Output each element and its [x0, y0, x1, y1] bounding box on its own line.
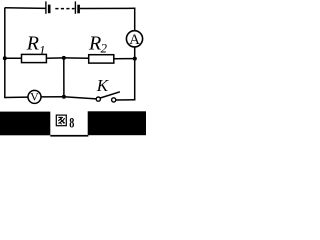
caption character 图: [56, 115, 66, 126]
wire: right vertical lower (node to bottom corner): [134, 59, 136, 101]
switch K lever blade: [100, 92, 120, 98]
wire: bottom right (corner to switch): [116, 99, 135, 101]
ammeter U:A circle: [126, 31, 142, 47]
svg-text:R: R: [88, 32, 101, 54]
node: bottom middle junction dot: [62, 95, 66, 99]
wire: bottom middle (node to switch): [64, 97, 96, 99]
wire: left vertical: [4, 8, 6, 99]
battery cell 1 short thick plate (-): [48, 5, 51, 14]
wire: voltmeter to bottom node: [41, 96, 64, 98]
switch K left terminal circle: [96, 97, 100, 101]
wire: bottom left (corner to voltmeter): [5, 96, 28, 98]
wire: middle left (node to R1): [5, 57, 22, 59]
svg-text:2: 2: [101, 41, 108, 56]
wire: top right from battery to corner: [80, 7, 135, 9]
voltmeter U:V circle: [28, 90, 41, 103]
caption black bar left: [0, 112, 50, 136]
wire: R1 to middle node: [46, 57, 63, 59]
node: middle junction dot between R1 and R2: [62, 56, 66, 60]
svg-text:K: K: [96, 76, 110, 95]
resistor R1 box: [22, 54, 47, 62]
wire: dashed link between cells: [55, 8, 74, 10]
node: left middle junction dot: [3, 56, 7, 60]
battery cell 2 short thick plate (-): [77, 5, 80, 14]
caption black bar right: [88, 111, 146, 135]
caption black strip under label: [50, 135, 88, 137]
wire: middle node to R2: [64, 57, 89, 59]
node: right middle junction dot: [133, 57, 137, 61]
svg-text:V: V: [30, 90, 39, 104]
wire: right vertical mid (ammeter to middle node): [134, 47, 136, 59]
svg-text:8: 8: [69, 114, 74, 130]
battery cell 2 long plate (+): [74, 1, 76, 13]
battery cell 1 long plate (+): [45, 1, 47, 13]
wire: right vertical upper (corner to ammeter): [134, 8, 136, 31]
wire: middle vertical branch: [63, 58, 65, 97]
svg-text:R: R: [26, 32, 39, 54]
resistor R2 box: [89, 55, 114, 63]
wire: R2 to right node: [114, 58, 135, 60]
svg-text:A: A: [129, 32, 140, 48]
switch K right terminal circle: [112, 98, 116, 102]
svg-text:1: 1: [39, 42, 46, 57]
wire: top left from corner to battery: [5, 7, 46, 10]
